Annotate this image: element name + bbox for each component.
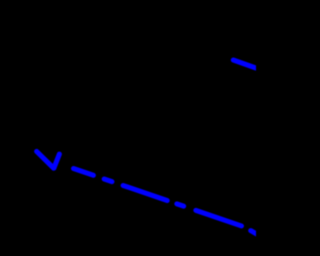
node A: blue check/V stroke [37,151,60,168]
wire: solid blue segment top-right [233,60,258,69]
wire: dashed blue trend line [74,169,263,238]
